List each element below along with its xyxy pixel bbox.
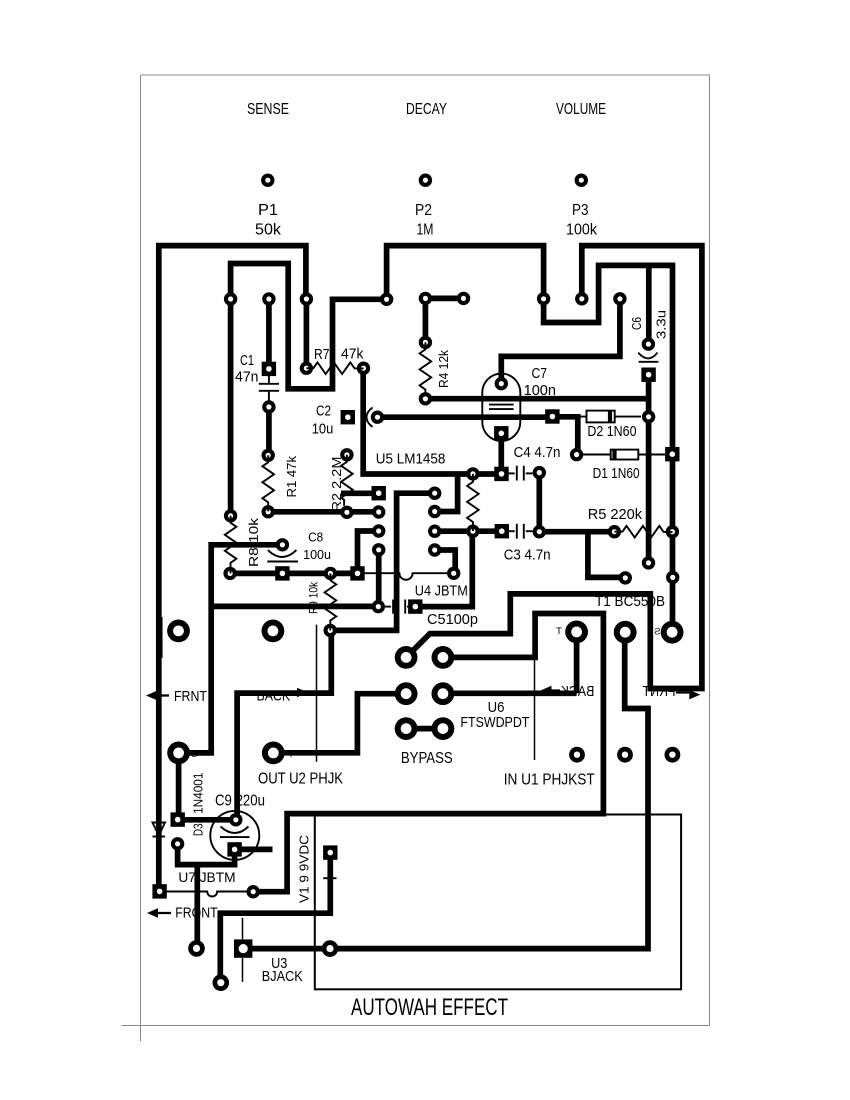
svg-text:S: S [191, 749, 197, 760]
svg-text:50k: 50k [255, 221, 282, 238]
wire P3 pin3 down to C7 top pad [501, 299, 620, 384]
wire P1 pin2 down to C1 [266, 299, 272, 369]
svg-text:U4 JBTM: U4 JBTM [415, 583, 468, 600]
capacitor C6 symbol [638, 353, 658, 362]
wire P1 loop top and left ground rail down to U7 square pad [159, 246, 306, 892]
svg-text:V1 9 9VDC: V1 9 9VDC [297, 835, 312, 903]
capacitor C2 symbol arc [367, 408, 373, 427]
svg-text:C1: C1 [240, 352, 254, 369]
wire C4 right pad down to C3 right pad to R5 left [539, 473, 614, 532]
svg-text:BYPASS: BYPASS [401, 750, 453, 767]
node on C4 trace [466, 467, 479, 480]
wire U6 row3 jumper [406, 726, 443, 732]
diode D1 body [583, 450, 665, 460]
wire P1 pin3 down to R7 left [304, 299, 310, 368]
arrow FRNT right mirrored [676, 690, 700, 699]
capacitor C2 pads [341, 410, 355, 424]
wire R7 right down and across to C4 left square pad [363, 368, 501, 474]
svg-text:BACK: BACK [560, 684, 594, 700]
capacitor C4 symbol [508, 466, 532, 481]
wire battery plus square pad down to lower-left pad [220, 853, 330, 983]
jumper U7 pads [152, 884, 166, 898]
wire U5 pin7 up to C4 trace [435, 474, 458, 512]
TRACES [159, 246, 702, 983]
svg-text:D2 1N60: D2 1N60 [587, 423, 636, 440]
svg-text:C2: C2 [316, 402, 331, 419]
capacitor C8 symbol [267, 550, 298, 561]
resistor R9 top pad [324, 567, 337, 580]
wire U5 pin5 to U4 right pad [435, 550, 456, 573]
wire C1 bottom to R1 top [266, 407, 272, 455]
potentiometer P2 pads [380, 293, 393, 306]
wire P1 pin1 down to R8 [228, 299, 234, 516]
arrow FRNT left [146, 691, 169, 701]
wire C5 right square pad up to U5 pin6 row [415, 531, 472, 606]
capacitor C9 symbol [220, 827, 250, 838]
wire U3 square pad across and up to footswitch R pad [243, 632, 648, 948]
svg-text:R9 10k: R9 10k [307, 581, 321, 614]
wire C7 square pad down to C4 square pad [498, 433, 504, 474]
svg-text:AUTOWAH EFFECT: AUTOWAH EFFECT [351, 995, 508, 1021]
capacitor C5 pads [372, 600, 385, 613]
svg-text:R7: R7 [314, 346, 330, 363]
capacitor C1 symbol [259, 376, 279, 401]
resistor R5 pads [608, 525, 621, 538]
capacitor C6 pads [642, 337, 655, 350]
wire R9 bottom pad down to BACK trace to C9 plus pad [237, 630, 331, 819]
wire junction branch down to T1 left pad [588, 532, 625, 578]
potentiometer P3 mounting hole [575, 174, 588, 187]
svg-text:P3: P3 [572, 202, 589, 219]
wire U5 pin4 down to C5 left pad [376, 550, 382, 607]
arrow FRONT bottom [147, 908, 171, 918]
capacitor C5 symbol [385, 600, 408, 614]
svg-text:100n: 100n [524, 382, 556, 399]
potentiometer P3 pads [537, 292, 550, 305]
capacitor C3 symbol [509, 524, 533, 539]
wire U6 row2 left to U2 lower-right pad [273, 694, 406, 753]
svg-text:C6: C6 [629, 317, 644, 330]
resistor R7 pads [300, 362, 313, 375]
diode D3 pads [171, 812, 185, 826]
battery V1 polarity tick [323, 877, 336, 879]
capacitor C7 plates [489, 405, 514, 410]
svg-text:R: R [613, 627, 620, 638]
svg-text:3.3u: 3.3u [654, 310, 669, 339]
diode D2 body [559, 411, 641, 423]
wire C8 plus net left rail down to U2 lower-left pad [179, 545, 283, 753]
svg-text:T1 BC550B: T1 BC550B [595, 594, 665, 610]
jack U2 silkscreen line [316, 625, 318, 762]
jumper U7 wire [167, 892, 248, 897]
svg-text:C3 4.7n: C3 4.7n [504, 547, 551, 564]
svg-text:R4 12k: R4 12k [436, 350, 451, 388]
diode D1 pads [570, 448, 583, 461]
resistor R2 pads [340, 448, 353, 461]
jumper U4 pads [350, 566, 364, 580]
svg-text:D3: D3 [192, 823, 206, 836]
wire P2 pin2 down to R4 [423, 298, 429, 342]
svg-text:R2 2.2M: R2 2.2M [329, 457, 344, 512]
PADS [152, 174, 683, 992]
capacitor C8 pads [276, 538, 289, 551]
jack U2 silkscreen line left [161, 617, 163, 658]
capacitor C4 pads [494, 467, 508, 481]
capacitor C3 pads [495, 524, 509, 538]
svg-text:100u: 100u [303, 547, 331, 562]
arrow BACK left [289, 688, 308, 698]
capacitor C7 pads [495, 377, 508, 390]
wire P3 pin1 to C6 top rail [544, 265, 673, 632]
jack U2 pads [167, 620, 190, 643]
wire branch down to pad near FRONT [194, 865, 200, 949]
svg-text:T: T [288, 749, 294, 760]
svg-text:C7: C7 [532, 365, 548, 382]
svg-text:BJACK: BJACK [262, 968, 303, 985]
capacitor C9 pads [229, 813, 242, 826]
svg-text:47k: 47k [341, 346, 364, 363]
svg-text:1M: 1M [417, 221, 434, 238]
wire U5 pin3 to U4 left square pad [358, 531, 379, 573]
svg-text:47n: 47n [235, 368, 259, 385]
transistor T1 pads [642, 556, 655, 569]
svg-text:BACK: BACK [257, 689, 291, 705]
potentiometer P1 pads [224, 292, 237, 305]
wire C9 square pad down around to D3 pad [178, 844, 235, 865]
resistor R9 bottom pad junction [324, 624, 337, 637]
wire U5 pin8 down around to R9 bottom pad [330, 493, 435, 630]
resistor R8 zigzag [225, 516, 237, 574]
svg-text:C4 4.7n: C4 4.7n [514, 444, 561, 461]
resistor R4 zigzag [420, 342, 432, 396]
svg-text:C9 220u: C9 220u [215, 793, 265, 810]
diode D2 left square pad [545, 409, 559, 423]
svg-text:VOLUME: VOLUME [556, 101, 606, 118]
wire U7 right pad up across battery box to U6 row1 right pad [253, 614, 603, 892]
svg-text:FTSWDPDT: FTSWDPDT [460, 714, 529, 731]
jack U3 silkscreen line [242, 918, 244, 982]
resistor R9 zigzag [325, 573, 337, 630]
battery V1 plus square pad [323, 845, 337, 859]
resistor R2 zigzag [341, 455, 353, 506]
svg-text:10u: 10u [312, 420, 334, 437]
svg-text:U5 LM1458: U5 LM1458 [376, 452, 446, 468]
jumper U4 wire [365, 573, 448, 580]
potentiometer P1 mounting hole [261, 174, 274, 187]
svg-text:R5 220k: R5 220k [588, 506, 643, 523]
capacitor C9 outline circle [210, 811, 259, 860]
jack U1 pads [569, 747, 585, 763]
board frame border [122, 75, 710, 1041]
node pad battery minus [213, 974, 230, 991]
wire U2 lower-left pad down to D3 square pad [176, 753, 182, 820]
wire C8 minus row to U4 left square pad [230, 571, 357, 577]
svg-text:C8: C8 [308, 530, 323, 545]
resistor R7 zigzag [306, 362, 363, 374]
stereo jack T R S pads [565, 621, 588, 644]
op-amp U5 pads pins 1-4 [372, 486, 386, 500]
svg-text:SENSE: SENSE [247, 101, 289, 118]
wire C6 branch down to C6 pad [646, 265, 652, 344]
resistor R3 zigzag [467, 474, 479, 531]
wire R2 bottom to U5 pin1 [341, 490, 379, 496]
svg-text:P2: P2 [415, 202, 432, 219]
resistor R8 pads [224, 509, 237, 522]
resistor R4 pads [419, 336, 432, 349]
wire P1 inner loop to P2 pin1 [231, 264, 384, 389]
svg-text:C5100p: C5100p [427, 611, 478, 628]
capacitor C1 pads [262, 362, 276, 376]
op-amp U5 pads pins 5-8 [428, 543, 441, 556]
wire P3 pin2 big loop right side down to U6 row1 left pad [406, 246, 702, 689]
svg-text:R8 10k: R8 10k [246, 517, 261, 567]
jack U1 silkscreen line [534, 660, 536, 760]
wire mid rail branch to C5 left pad [211, 604, 378, 610]
svg-text:R1 47k: R1 47k [284, 456, 299, 498]
svg-text:DECAY: DECAY [406, 101, 447, 118]
svg-text:1N4001: 1N4001 [192, 773, 206, 814]
wire C2 plus pad across to D2 square pad and down to D1 left pad [378, 417, 578, 455]
svg-text:S: S [654, 627, 660, 638]
wire R1 bottom row to U5 pin2 [268, 509, 379, 515]
wire P2 loop [387, 246, 544, 300]
wire D3 square pad to C9 plus pad [178, 817, 236, 823]
svg-text:T: T [556, 626, 562, 637]
wire U6 row2 right to footswitch T pad [443, 632, 577, 693]
resistor R1 pads [262, 449, 275, 462]
footswitch U6 pads [395, 646, 418, 669]
arrow BACK right mirrored [541, 686, 561, 696]
svg-text:FRONT: FRONT [175, 905, 217, 921]
resistor R5 zigzag [614, 526, 672, 538]
svg-text:U7 JBTM: U7 JBTM [178, 870, 235, 885]
resistor R1 zigzag [262, 455, 274, 511]
wire C6 square pad rail down to T1 top pad [646, 375, 652, 563]
potentiometer P2 mounting hole [419, 174, 432, 187]
svg-text:P1: P1 [258, 202, 278, 219]
capacitor C7 oval outline [482, 374, 520, 441]
wire C9 square pad stub toward battery [235, 847, 273, 853]
svg-text:FRNT: FRNT [174, 689, 207, 705]
resistor R3 bottom pad [466, 525, 479, 538]
wire P2 pin2 to pin3 [425, 296, 463, 302]
jack U3 pads [234, 939, 252, 957]
svg-text:100k: 100k [566, 221, 598, 238]
svg-text:D1 1N60: D1 1N60 [593, 465, 640, 482]
svg-text:FRNT: FRNT [642, 684, 675, 700]
svg-text:OUT U2 PHJK: OUT U2 PHJK [258, 771, 344, 788]
wire U5 pin6 to C3 left square pad [435, 528, 502, 534]
wire R4 bottom across to C6 rail [425, 396, 648, 402]
diode D3 symbol [153, 823, 166, 837]
node pad below FRONT [188, 940, 205, 957]
svg-text:IN U1 PHJKST: IN U1 PHJKST [504, 772, 595, 789]
battery V1 outline box [315, 815, 681, 990]
